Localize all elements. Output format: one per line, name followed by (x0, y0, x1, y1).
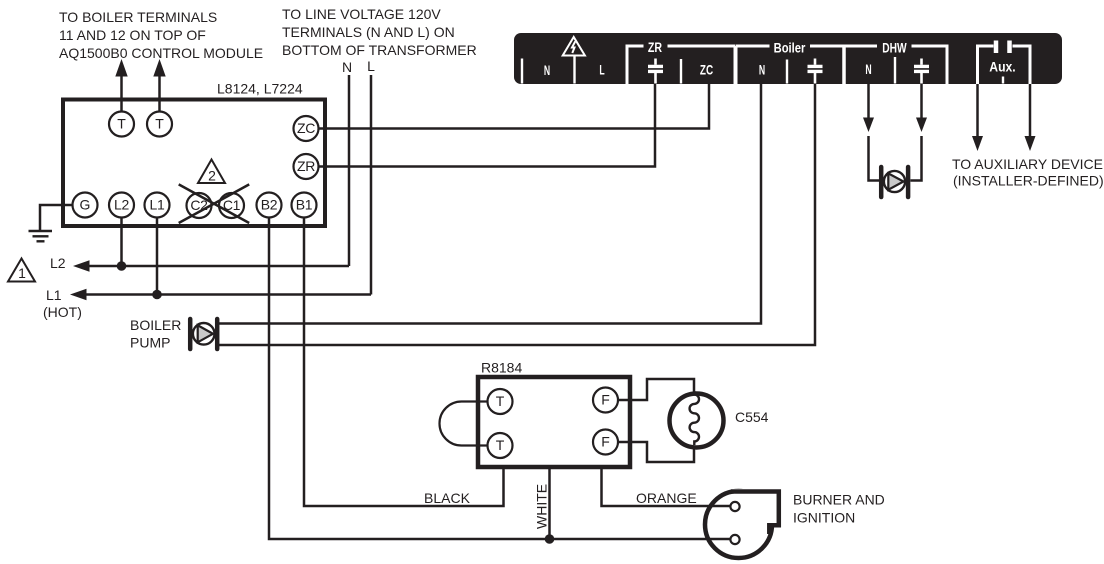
svg-text:L2: L2 (50, 255, 66, 271)
svg-text:N: N (865, 62, 871, 78)
svg-text:T: T (117, 116, 126, 132)
svg-text:ZC: ZC (700, 62, 713, 78)
svg-text:Boiler: Boiler (774, 40, 806, 55)
svg-text:L: L (599, 62, 604, 78)
svg-text:11 AND 12 ON TOP OF: 11 AND 12 ON TOP OF (59, 27, 206, 43)
svg-text:ZC: ZC (297, 120, 315, 136)
svg-text:BURNER AND: BURNER AND (793, 492, 885, 508)
svg-text:L1: L1 (46, 287, 62, 303)
svg-text:C554: C554 (735, 409, 769, 425)
svg-text:1: 1 (18, 265, 26, 281)
svg-text:TO AUXILIARY DEVICE: TO AUXILIARY DEVICE (952, 156, 1103, 172)
svg-text:N: N (759, 62, 765, 78)
svg-text:BLACK: BLACK (424, 490, 471, 506)
svg-text:PUMP: PUMP (130, 335, 170, 351)
svg-text:BOTTOM OF TRANSFORMER: BOTTOM OF TRANSFORMER (282, 42, 477, 58)
svg-text:T: T (155, 116, 164, 132)
svg-text:T: T (496, 437, 505, 453)
svg-text:L8124, L7224: L8124, L7224 (217, 81, 303, 97)
svg-text:B2: B2 (261, 197, 278, 213)
svg-text:(INSTALLER-DEFINED): (INSTALLER-DEFINED) (953, 173, 1104, 189)
svg-text:R8184: R8184 (481, 360, 522, 376)
svg-text:DHW: DHW (882, 40, 907, 56)
svg-text:ORANGE: ORANGE (636, 490, 697, 506)
svg-text:TO BOILER TERMINALS: TO BOILER TERMINALS (59, 9, 217, 25)
svg-text:N: N (342, 59, 352, 75)
svg-text:WHITE: WHITE (534, 484, 550, 529)
svg-text:ZR: ZR (297, 158, 315, 174)
svg-text:ZR: ZR (648, 40, 662, 56)
svg-text:BOILER: BOILER (130, 317, 181, 333)
svg-text:Aux.: Aux. (989, 59, 1015, 75)
svg-text:2: 2 (208, 168, 216, 184)
svg-text:B1: B1 (296, 197, 313, 213)
svg-text:G: G (80, 197, 91, 213)
svg-text:L: L (367, 58, 375, 74)
svg-text:F: F (601, 392, 610, 408)
svg-text:N: N (544, 63, 550, 79)
svg-text:IGNITION: IGNITION (793, 510, 855, 526)
svg-text:TERMINALS (N AND L) ON: TERMINALS (N AND L) ON (282, 24, 455, 40)
svg-text:T: T (496, 393, 505, 409)
svg-text:F: F (601, 434, 610, 450)
svg-text:L1: L1 (150, 197, 165, 213)
svg-text:AQ1500B0 CONTROL MODULE: AQ1500B0 CONTROL MODULE (59, 45, 263, 61)
svg-text:L2: L2 (114, 197, 129, 213)
svg-text:(HOT): (HOT) (43, 304, 82, 320)
svg-text:TO LINE VOLTAGE 120V: TO LINE VOLTAGE 120V (282, 6, 441, 22)
